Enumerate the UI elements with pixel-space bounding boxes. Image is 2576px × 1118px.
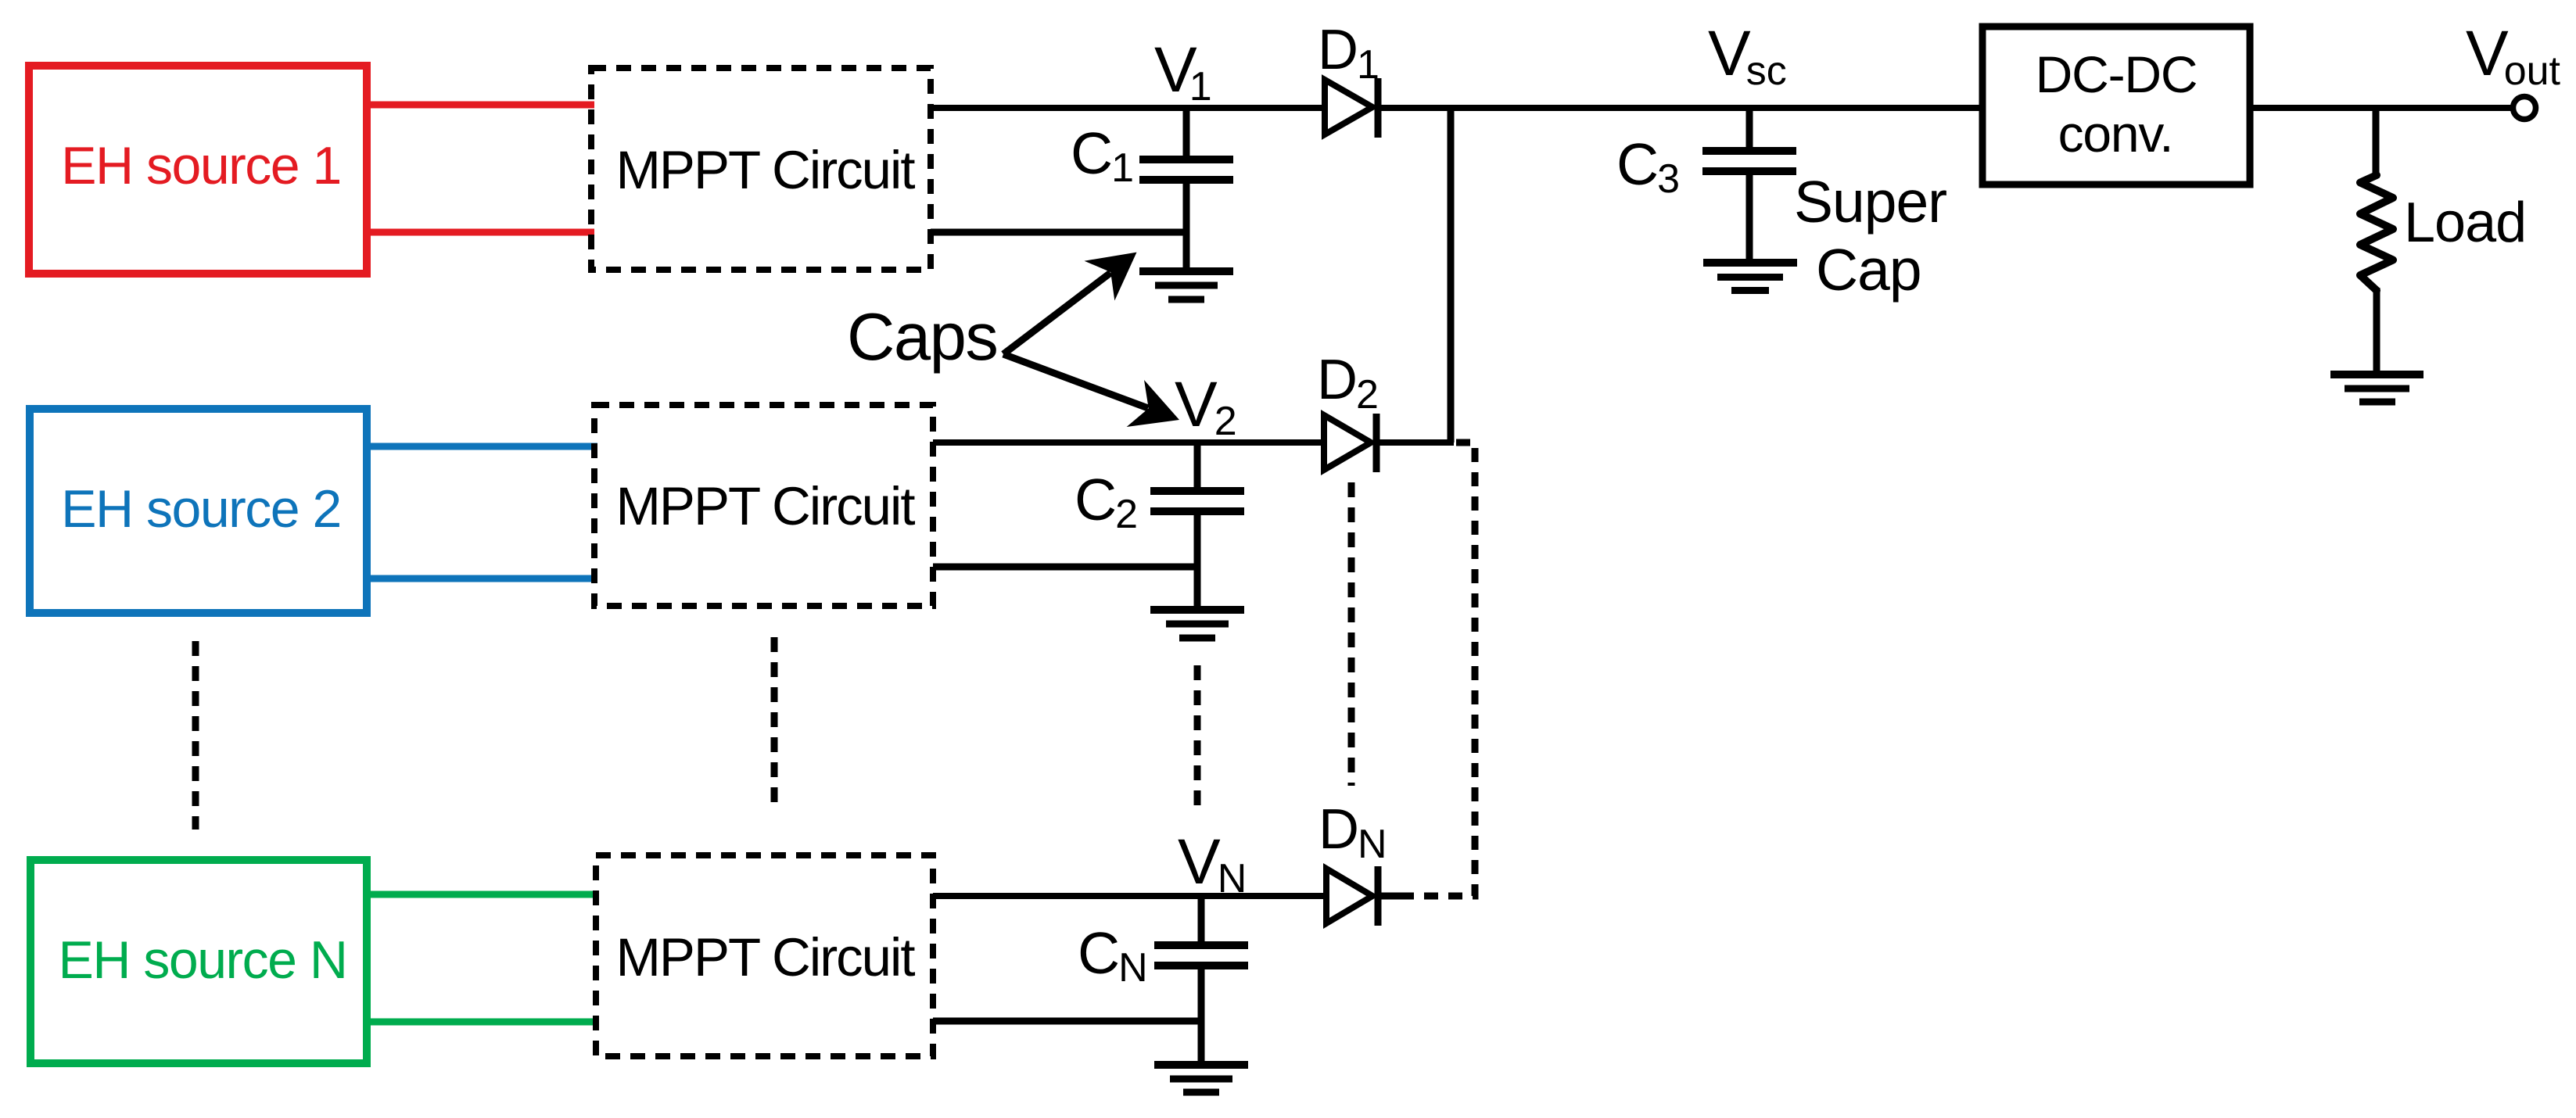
wire EH3 to MPPT3 top: [363, 891, 599, 898]
D1 cathode bar: [1375, 78, 1382, 138]
svg-text:Cap: Cap: [1816, 237, 1921, 303]
node Vsc wire: [1746, 108, 1753, 153]
svg-text:DC-DC: DC-DC: [2036, 45, 2197, 103]
wire C2 to ground: [1194, 511, 1201, 610]
wire MPPT3 return: [933, 1018, 1204, 1025]
node VN wire: [1198, 896, 1205, 947]
capacitor C1 bottom plate: [1139, 176, 1233, 184]
wire EH2 to MPPT2 bottom: [363, 575, 597, 582]
capacitor CN bottom plate: [1154, 962, 1248, 969]
capacitor C3 bottom plate: [1702, 167, 1796, 175]
EH source 2 box: [30, 409, 367, 613]
svg-text:MPPT Circuit: MPPT Circuit: [615, 927, 915, 987]
wire EH3 to MPPT3 bottom: [363, 1019, 599, 1026]
wire MPPT2 return: [933, 564, 1200, 571]
DC-DC converter box: [1982, 27, 2250, 185]
arrow Caps to C1 ground: [1003, 253, 1137, 354]
wire DN cathode stub: [1379, 893, 1408, 900]
wire MPPT1 return: [931, 229, 1189, 236]
wire EH2 to MPPT2 top: [363, 443, 597, 450]
EH source N box: [30, 860, 367, 1063]
svg-text:EH source 2: EH source 2: [61, 479, 341, 539]
svg-text:MPPT Circuit: MPPT Circuit: [615, 476, 915, 536]
capacitor C2 bottom plate: [1150, 507, 1244, 515]
dashed continuation below D2: [1348, 482, 1355, 786]
capacitor C1 top plate: [1139, 156, 1233, 163]
svg-text:MPPT Circuit: MPPT Circuit: [615, 140, 915, 200]
capacitor C3 top plate: [1702, 147, 1796, 155]
dashed continuation C2 ground to VN: [1194, 665, 1201, 814]
node V1 wire: [1183, 108, 1190, 161]
svg-text:Load: Load: [2404, 192, 2526, 254]
dashed continuation MPPT2 to MPPT3: [771, 637, 778, 805]
dashed bus D2/DN to junction: [1408, 443, 1475, 896]
wire C1 to ground: [1183, 180, 1190, 271]
DN cathode bar: [1375, 866, 1382, 926]
arrow Caps to V2: [1003, 354, 1179, 427]
ground C3: [1703, 263, 1797, 291]
junction bus vertical D1-D2: [1448, 105, 1455, 443]
wire D2 to bus: [1375, 439, 1454, 446]
wire EH1 to MPPT1 bottom: [363, 229, 594, 236]
wire D1 to DC-DC converter: [1376, 105, 1984, 111]
ground CN: [1154, 1065, 1248, 1092]
MPPT circuit 1 box: [591, 68, 931, 270]
wire MPPT2 to D2: [933, 439, 1326, 446]
wire CN to ground: [1198, 966, 1205, 1065]
MPPT circuit 3 box: [596, 855, 933, 1056]
capacitor C2 top plate: [1150, 487, 1244, 495]
capacitor CN top plate: [1154, 941, 1248, 949]
resistor Load: [2360, 175, 2393, 291]
wire MPPT3 to DN: [933, 893, 1328, 899]
ground Load: [2330, 374, 2424, 402]
dashed continuation EH2 to EH3: [192, 641, 199, 830]
EH source 1 box: [29, 66, 367, 274]
svg-text:EH source 1: EH source 1: [61, 136, 341, 195]
diode D1: [1325, 80, 1372, 134]
svg-text:EH source N: EH source N: [59, 930, 347, 990]
svg-text:conv.: conv.: [2058, 105, 2173, 163]
MPPT circuit 2 box: [594, 405, 933, 606]
D2 cathode bar: [1373, 414, 1380, 472]
svg-text:Super: Super: [1794, 169, 1946, 235]
wire EH1 to MPPT1 top: [363, 102, 594, 109]
node V2 wire: [1194, 443, 1201, 493]
wire Load to ground: [2373, 288, 2380, 374]
wire Vout to Load: [2373, 108, 2380, 178]
diode DN: [1326, 869, 1372, 923]
ground C1: [1139, 271, 1233, 299]
wire C3 to ground: [1746, 171, 1753, 263]
wire DC-DC to Vout: [2250, 105, 2513, 111]
svg-text:Caps: Caps: [847, 300, 997, 374]
diode D2: [1324, 415, 1371, 470]
Vout terminal: [2513, 97, 2536, 120]
wire MPPT1 to D1: [931, 105, 1328, 111]
ground C2: [1150, 610, 1244, 638]
